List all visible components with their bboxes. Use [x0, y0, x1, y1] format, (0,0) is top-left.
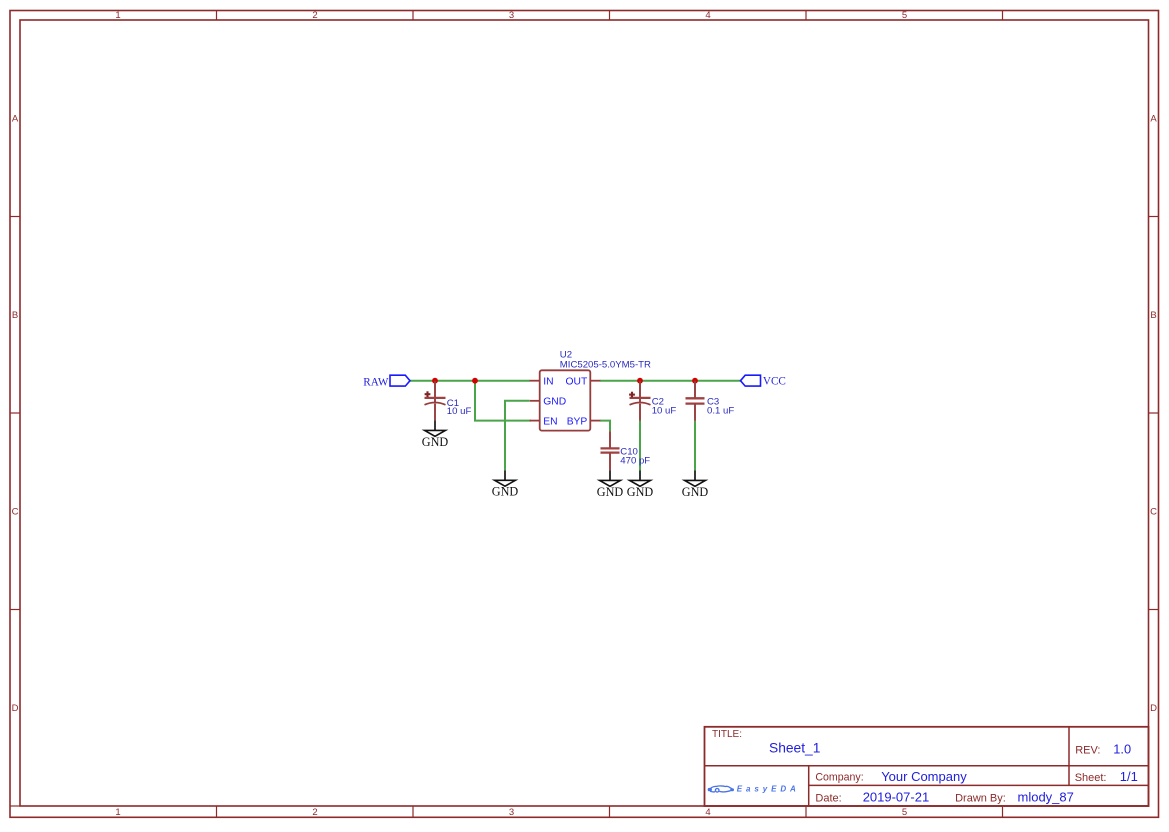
svg-text:EN: EN: [543, 416, 557, 427]
svg-text:Date:: Date:: [815, 792, 841, 804]
svg-text:1: 1: [115, 10, 120, 21]
svg-text:D: D: [12, 703, 19, 714]
C10 labels: [620, 446, 650, 466]
svg-text:OUT: OUT: [566, 376, 588, 387]
svg-text:GND: GND: [422, 435, 449, 449]
svg-text:TITLE:: TITLE:: [712, 729, 742, 740]
svg-text:mlody_87: mlody_87: [1018, 790, 1074, 805]
svg-text:3: 3: [509, 807, 514, 818]
svg-text:Sheet_1: Sheet_1: [769, 741, 820, 756]
capacitor C10: [601, 431, 620, 470]
svg-text:Company:: Company:: [815, 772, 863, 784]
svg-text:10 uF: 10 uF: [652, 406, 677, 417]
EasyEDA logo: [708, 785, 800, 794]
capacitor C1 (polarized): [425, 381, 446, 421]
svg-text:REV:: REV:: [1075, 744, 1100, 756]
junction node at C1: [432, 378, 438, 384]
svg-text:B: B: [12, 310, 18, 321]
ground at C2: [627, 470, 654, 498]
C2 labels: [652, 397, 677, 417]
wire VCC net: [600, 380, 741, 382]
svg-text:GND: GND: [597, 485, 624, 499]
ground at C3: [682, 470, 709, 498]
svg-text:1.0: 1.0: [1113, 741, 1131, 756]
svg-text:BYP: BYP: [567, 416, 588, 427]
svg-text:2: 2: [312, 807, 317, 818]
C3 labels: [707, 397, 734, 417]
svg-text:IN: IN: [543, 376, 553, 387]
svg-text:GND: GND: [492, 485, 519, 499]
wire RAW net: [410, 380, 530, 382]
svg-text:MIC5205-5.0YM5-TR: MIC5205-5.0YM5-TR: [560, 360, 651, 371]
svg-text:4: 4: [705, 807, 710, 818]
C1 labels: [447, 398, 472, 417]
ground at C10: [597, 470, 624, 498]
op-amp U2 MIC5205 body: [530, 370, 601, 430]
wire C2 to ground: [639, 421, 641, 471]
wire BYP to C10: [600, 421, 610, 432]
svg-text:1: 1: [115, 807, 120, 818]
capacitor C2 (polarized): [629, 381, 650, 421]
title block (decorative frame): [705, 727, 1149, 806]
svg-text:2: 2: [312, 10, 317, 21]
junction node at C2: [637, 378, 643, 384]
net flag VCC: [741, 375, 786, 387]
svg-text:C: C: [1150, 507, 1157, 518]
junction node at C3: [692, 378, 698, 384]
wire C3 to ground: [694, 421, 696, 471]
net flag RAW: [363, 375, 410, 388]
svg-text:4: 4: [705, 10, 710, 21]
svg-text:Sheet:: Sheet:: [1075, 772, 1107, 784]
svg-text:10 uF: 10 uF: [447, 406, 472, 417]
wire GND pin to ground: [505, 401, 530, 471]
svg-text:3: 3: [509, 10, 514, 21]
svg-text:B: B: [1150, 310, 1156, 321]
svg-text:GND: GND: [682, 485, 709, 499]
svg-text:EasyEDA: EasyEDA: [737, 785, 800, 794]
svg-text:0.1 uF: 0.1 uF: [707, 406, 734, 417]
svg-text:5: 5: [902, 10, 907, 21]
ground at C1: [422, 420, 449, 448]
wire EN branch: [475, 381, 531, 421]
U2 pin names: [543, 376, 588, 427]
svg-text:GND: GND: [627, 485, 654, 499]
svg-text:A: A: [12, 114, 19, 125]
svg-text:Your Company: Your Company: [881, 769, 967, 784]
capacitor C3: [686, 381, 705, 421]
svg-text:RAW: RAW: [363, 377, 389, 389]
svg-text:470 pF: 470 pF: [620, 456, 650, 467]
svg-text:GND: GND: [543, 397, 566, 408]
svg-text:A: A: [1150, 114, 1157, 125]
junction node at EN branch: [472, 378, 478, 384]
svg-text:Drawn By:: Drawn By:: [955, 792, 1006, 804]
svg-text:5: 5: [902, 807, 907, 818]
ground at U2 GND pin: [492, 470, 519, 498]
svg-text:2019-07-21: 2019-07-21: [863, 790, 930, 805]
svg-text:1/1: 1/1: [1120, 769, 1138, 784]
svg-text:VCC: VCC: [763, 375, 786, 387]
svg-text:D: D: [1150, 703, 1157, 714]
svg-text:C: C: [12, 507, 19, 518]
